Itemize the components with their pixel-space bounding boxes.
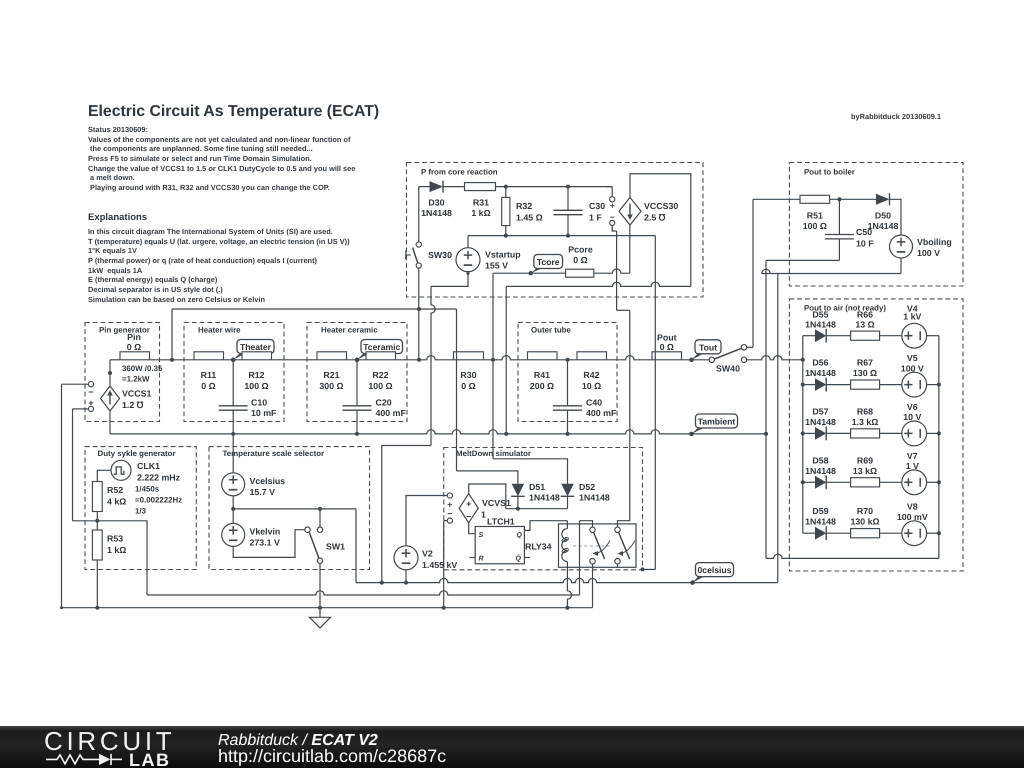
resistor R22 [366, 352, 396, 360]
node R32 bottom [504, 234, 508, 238]
wire VCCS30 minus terminal down to relay feed x=629.8 [612, 226, 616, 232]
footer url [218, 746, 446, 767]
switch SW30 [416, 242, 421, 247]
flag Tout [692, 351, 709, 360]
node C20 on ambient rail [355, 432, 359, 436]
capacitor C50 [838, 199, 840, 234]
resistor R66 [851, 331, 880, 340]
wire VCCS30 top loop to core return [630, 174, 691, 287]
flag Tcore [531, 266, 547, 273]
switch SW1 [319, 509, 321, 527]
core return wire y=286.4 [506, 282, 691, 286]
resistor R12 [242, 352, 272, 360]
wire relay switch1 bottom to ground rail end [592, 564, 594, 608]
node coil ground [565, 606, 569, 610]
box: Heater ceramic [307, 323, 407, 422]
wire V4 to right bus [927, 335, 939, 337]
latch Qbar stub [524, 557, 530, 559]
left bus of Pout to air [802, 336, 804, 534]
node VCVS1 minus ground [442, 606, 446, 610]
wire relay switch2 bottom stub [617, 564, 619, 567]
resistor R69 [851, 478, 880, 487]
wire D30 to R31 [443, 186, 465, 188]
wire Vkelvin bottom to SW1 left pole [233, 530, 305, 558]
wire CLK1 to R52 [97, 470, 111, 481]
wire R51 left feed from SW40 [753, 198, 800, 200]
resistor R32 (vertical) [505, 187, 507, 198]
node C40 top [566, 358, 570, 362]
wire D59 to R70 [826, 532, 850, 534]
capacitor C10 [232, 360, 234, 406]
wire R41 to R42 [557, 359, 577, 361]
resistor R31 [465, 183, 496, 191]
flag Tambient [692, 426, 709, 434]
wire relay coil bottom to ground rail [567, 562, 571, 608]
footer title Rabbitduck / ECAT V2 [218, 732, 378, 750]
wire row D55 left [803, 335, 815, 337]
wire x=766 C50 net down to Pout-to-air bottom [765, 260, 767, 558]
wire x=172 up and over to SW30 bottom [171, 309, 173, 360]
wire D56 to R67 [826, 384, 850, 386]
voltage source Vkelvin 273.1 V [222, 523, 245, 546]
box: Pin generator [85, 323, 160, 422]
node Tceramic [355, 358, 359, 362]
node x=172 on main rail [170, 358, 174, 362]
voltage source Vcelsius 15.7 V [232, 434, 234, 473]
wire R69 to V7 [880, 481, 902, 483]
wire R51 to D50 [830, 198, 876, 200]
wire R30 to R41 [484, 356, 528, 360]
resistor Pout [652, 352, 682, 360]
switch SW40 [709, 357, 714, 362]
resistor R42 [577, 352, 607, 360]
capacitor C30 [567, 187, 569, 211]
node Theater [231, 358, 235, 362]
wire VCCS1 minus to left bus x=61.5 [62, 383, 89, 385]
latch LTCH1 [475, 527, 524, 564]
wire Pcore right to VCCS30 bottom [594, 269, 630, 273]
resistor R53 [92, 530, 102, 560]
wire VCVS1 minus terminal to ground rail [444, 520, 448, 522]
resistor Pcore [566, 269, 594, 277]
wire Pin left to VCCS1 top [110, 359, 120, 361]
wire VCVS1 bottom to latch S [469, 523, 476, 534]
node C50 top [837, 197, 841, 201]
title text [88, 103, 379, 121]
wire R67 to V5 [880, 384, 902, 386]
wire R53 bottom to ground rail [96, 560, 98, 608]
nodes on right bus [937, 383, 941, 387]
node VCCS1 top [108, 371, 112, 375]
wire divider tap to relay drive [97, 521, 147, 595]
ground symbol [319, 608, 321, 618]
wire D55 to R66 [826, 335, 850, 337]
node SW1 ground [318, 606, 322, 610]
wire R42 to Pout [607, 356, 653, 360]
wire duty drive up through relay [579, 521, 581, 595]
box: Outer tube [518, 323, 617, 422]
wire Pout to SW40 [682, 359, 710, 361]
box: Pout to boiler [789, 163, 963, 287]
wire VCVS1 top loop to latch rail [469, 484, 506, 509]
relay linkage dashed [573, 545, 612, 547]
clock source CLK1 [111, 460, 131, 480]
explanations text block [88, 227, 350, 304]
wire C50 bottom to x=766 [766, 259, 839, 261]
wire V2 bottom [405, 570, 407, 583]
node main-in on left bus [801, 358, 805, 362]
latch rail y=508.7 [506, 508, 568, 510]
wire D50 to Vboiling [890, 199, 902, 235]
CircuitLab logo text CIRCUIT [44, 726, 254, 757]
wire x=493 Tcore net down to MeltDown D52 [492, 273, 494, 360]
wire R66 to V4 [880, 335, 902, 337]
box: MeltDown simulator [444, 448, 643, 570]
wire row D57 left [803, 432, 815, 434]
source VCVS1 (diamond with plus minus) [459, 494, 478, 523]
wire R22 to R30 [396, 356, 454, 360]
wire R52 to R53 [96, 512, 98, 531]
node Tcore drop on main rail [491, 358, 495, 362]
wire relay switch1 top jog [580, 521, 593, 527]
flag Theater [233, 351, 250, 360]
diode D50 [876, 194, 890, 205]
flag 0celsius [693, 574, 709, 583]
resistor R52 [92, 482, 102, 512]
box: Heater wire [184, 323, 284, 422]
node C30 bottom [566, 234, 570, 238]
voltage source V8 100 mV [902, 521, 927, 546]
wire VCCS1 plus to divider tap x=72.5 [73, 408, 89, 410]
wire row D59 left [803, 532, 815, 534]
wire R12 to R21 [272, 359, 318, 361]
relay RLY34 box [559, 524, 637, 567]
diode D58 [815, 476, 826, 489]
VCVS1 input terminals [447, 493, 452, 498]
wire V8 to right bus [927, 532, 939, 534]
node R32 top [504, 185, 508, 189]
nodes on left bus [801, 383, 805, 387]
wire SW1 bottom to ground rail [319, 563, 321, 607]
wire D58 to R69 [826, 481, 850, 483]
relay switch 1 [590, 527, 595, 532]
wire x=431 down from Vstartup (to Vcelsius feed) [431, 286, 435, 445]
diode D51 [512, 484, 525, 497]
voltage source Vboiling 100 V [890, 235, 913, 258]
wire V6 to right bus [927, 432, 939, 434]
resistor R67 [851, 380, 880, 389]
relay switch 2 [615, 527, 620, 532]
wire Vstartup bottom / Pcore left node [467, 272, 469, 274]
VCCS1 input terminals [88, 382, 93, 387]
wire Vboiling bottom to 0celsius drop [900, 258, 902, 274]
node MeltDown corner [641, 567, 645, 571]
wire R32 bottom [505, 226, 507, 236]
node Tout [689, 358, 693, 362]
voltage source V6 10 V [902, 421, 927, 446]
return rail y=235.6 Vstartup top to corner [468, 235, 655, 237]
node core-return on ambient rail [504, 432, 508, 436]
node 0celsius flag [690, 580, 694, 584]
explanations heading [88, 212, 147, 223]
bottom wire of Pout to air to Tambient drop [766, 554, 939, 558]
resistor R21 [317, 352, 347, 360]
node SW1 top feed [318, 507, 322, 511]
node SW30 net on main rail [417, 358, 421, 362]
wire scale select to SW1 and MeltDown [233, 508, 356, 510]
voltage source V5 100 V [902, 372, 927, 397]
wire Pcore left (from x=493 corner) [493, 272, 566, 274]
wire D57 to R68 [826, 432, 850, 434]
wire relay switch2 top jog to x=629.8 [618, 521, 630, 527]
wire row D58 left [803, 481, 815, 483]
zero-celsius rail y=582.6 [356, 578, 778, 582]
box: Temperature scale selector [209, 447, 370, 570]
diode D30 [430, 181, 444, 192]
resistor R70 [851, 529, 880, 538]
wire R70 to V8 [880, 532, 902, 534]
node ground-rail left [60, 606, 63, 609]
wire x=777.8 zero-celsius drop [777, 274, 779, 583]
diode D52 [561, 484, 574, 497]
diode D57 [815, 427, 826, 440]
svg-text:LAB: LAB [129, 750, 171, 768]
ground rail y=607.7 [62, 607, 593, 609]
wire Pin to R11 [150, 359, 195, 361]
node C40 on ambient rail [566, 432, 570, 436]
resistor R30 [454, 352, 484, 360]
voltage source V2 1.455 kV [394, 546, 418, 570]
resistor Pin [120, 352, 150, 360]
latch R stub [470, 557, 476, 559]
capacitor C40 [567, 360, 569, 406]
wire x=655.3 through Pout resistor [654, 236, 656, 570]
wire core return down to ambient rail [505, 286, 507, 434]
diode D55 [815, 329, 826, 342]
wire D51 bottom [517, 496, 519, 508]
capacitor C20 [356, 360, 358, 406]
box: Duty sykle generator [85, 447, 196, 570]
box: Pout to air (not ready) [789, 299, 963, 571]
node C10/Vcelsius on ambient rail [231, 432, 235, 436]
node R53 on ground rail [95, 606, 99, 610]
source VCCS30 (diamond, arrow down) [619, 197, 641, 225]
resistor R51 [800, 195, 830, 203]
wire Vstartup jog down-left [431, 273, 468, 286]
source VCCS1 (diamond, arrow up) [101, 386, 120, 411]
status text block [88, 125, 355, 193]
node W1 on zero-celsius rail [380, 581, 384, 585]
wire x=456.5 main rail to MeltDown [456, 360, 458, 471]
voltage source V4 1 kV [902, 323, 927, 348]
wire Vcelsius bottom to Vkelvin [232, 496, 234, 524]
wire V7 to right bus [927, 481, 939, 483]
wire D52 bottom [567, 496, 569, 508]
wire R68 to V6 [880, 432, 902, 434]
wire V5 to right bus [927, 384, 939, 386]
flag Tceramic [357, 351, 374, 360]
node SW30 drop [417, 307, 421, 311]
wire D52 feed [493, 459, 568, 484]
node C30 top [566, 185, 570, 189]
byline [851, 112, 941, 121]
wire D51 feed [457, 471, 518, 484]
wire latch Q to relay coil [524, 521, 567, 531]
bottom black bar [0, 726, 1024, 768]
box: P from core reaction [407, 163, 704, 298]
wire SW30 top to D30 [418, 187, 420, 242]
VCCS30 input terminals [606, 186, 612, 188]
node V2 on zero-celsius rail [404, 581, 408, 585]
diode D59 [815, 527, 826, 540]
wire row D56 left [803, 384, 815, 386]
wire R11 to R12 [224, 359, 243, 361]
relay coil [566, 521, 568, 529]
node D51 bottom [516, 507, 520, 511]
wire SW40 to Pout-to-air [747, 356, 803, 360]
node Vcelsius/Vkelvin [231, 507, 235, 511]
wire through R30 (D52 feed x=456.5 upper part) [456, 309, 458, 360]
wire R31 to VCCS30, top rail y=186.6 [496, 186, 613, 188]
resistor R41 [528, 352, 558, 360]
voltage source V7 1 V [902, 470, 927, 495]
node divider tap [95, 519, 99, 523]
wire R21 to R22 [347, 359, 367, 361]
ambient rail (Tambient net) [110, 430, 766, 434]
wire V2 plus to VCVS1 plus terminal [406, 496, 447, 546]
diode D56 [815, 378, 826, 391]
wire SW30 bottom down to main rail [418, 268, 420, 309]
node x=766 on ambient rail [764, 432, 768, 436]
voltage source Vstartup 155 V [467, 236, 469, 248]
right bus of Pout to air [938, 336, 940, 559]
node Tambient flag [689, 432, 693, 436]
wire Vcelsius feed from x=431 [382, 446, 431, 583]
resistor R68 [851, 429, 880, 438]
wire VCCS1 bottom to ambient rail [109, 411, 111, 434]
resistor R11 [194, 352, 224, 360]
